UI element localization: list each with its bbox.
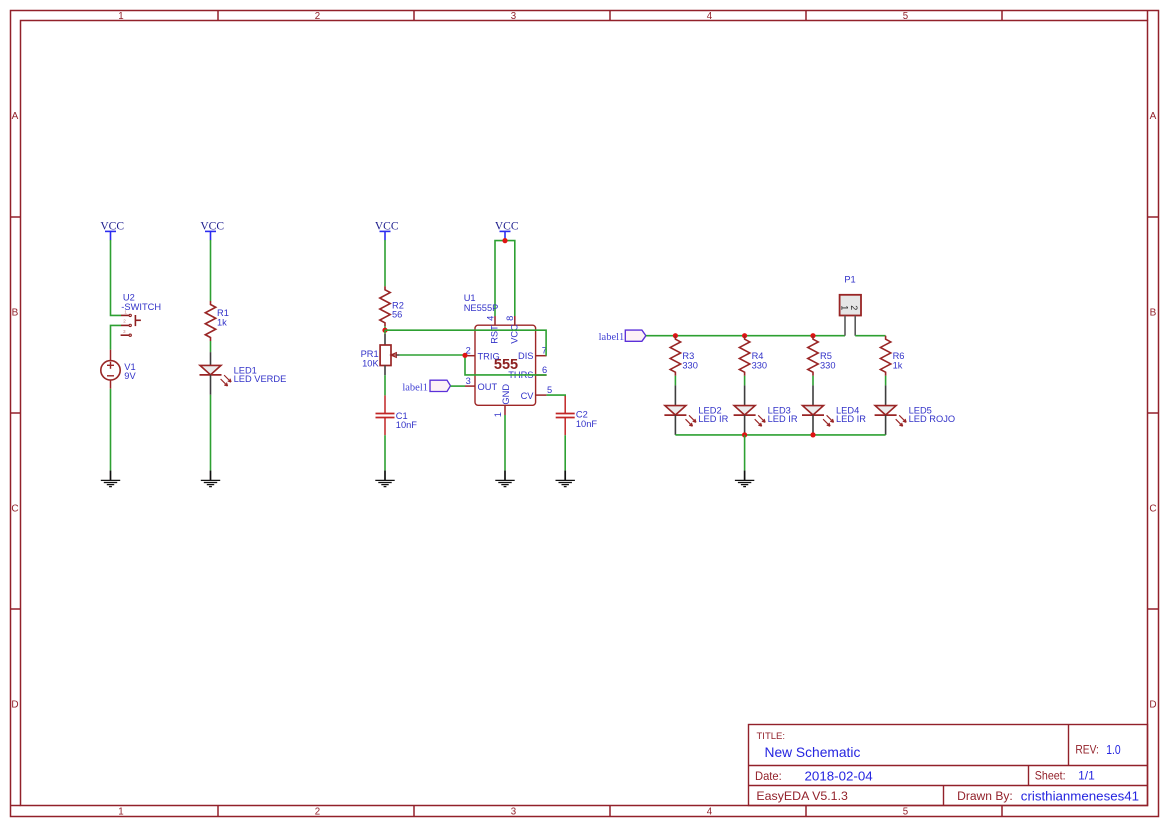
svg-text:2: 2 — [315, 807, 320, 818]
svg-text:1k: 1k — [893, 360, 903, 370]
svg-text:10nF: 10nF — [576, 419, 598, 429]
switch U2 — [121, 292, 161, 336]
svg-text:1.0: 1.0 — [1106, 743, 1120, 757]
svg-text:label1: label1 — [599, 332, 625, 343]
node R5 top — [810, 333, 815, 338]
pin 5 CV — [521, 385, 553, 401]
svg-text:5: 5 — [903, 11, 908, 22]
ground (555 GND) — [495, 471, 514, 487]
wire R2 to node — [384, 326, 386, 330]
svg-text:D: D — [11, 699, 18, 710]
svg-text:2018-02-04: 2018-02-04 — [805, 769, 873, 783]
pin 1 GND — [493, 384, 511, 418]
svg-text:OUT: OUT — [478, 382, 498, 392]
resistor R1 1k — [205, 301, 229, 341]
ground (C1) — [375, 471, 394, 487]
wire C1 to ground — [384, 435, 386, 470]
svg-text:P1: P1 — [844, 275, 855, 285]
wire GND pin to ground — [504, 415, 506, 470]
svg-text:REV:: REV: — [1075, 743, 1099, 757]
pin 4 RST — [485, 316, 499, 344]
node R2/PR1/DIS junction — [382, 328, 387, 333]
wire R5 to LED4 — [812, 376, 814, 386]
LED3 LED IR — [734, 385, 798, 435]
svg-text:TRIG: TRIG — [478, 351, 500, 361]
svg-text:1: 1 — [118, 11, 123, 22]
power flag VCC (U1) — [495, 221, 519, 241]
wire VCC to pins 4 and 8 — [495, 241, 515, 316]
wire node to DIS pin 7 — [385, 330, 546, 356]
svg-text:10K: 10K — [362, 358, 379, 368]
svg-text:5: 5 — [903, 807, 908, 818]
power flag VCC (R2 branch) — [375, 221, 399, 241]
svg-text:VCC: VCC — [510, 324, 520, 344]
svg-text:3: 3 — [511, 11, 516, 22]
resistor R3 330 — [670, 336, 698, 376]
node R3 top — [673, 333, 678, 338]
wire VCC to R1 — [210, 240, 212, 301]
svg-text:RST: RST — [490, 325, 500, 344]
svg-text:LED VERDE: LED VERDE — [234, 374, 287, 384]
svg-text:EasyEDA V5.1.3: EasyEDA V5.1.3 — [756, 790, 848, 803]
svg-text:D: D — [1149, 699, 1156, 710]
svg-text:1: 1 — [493, 412, 503, 417]
wire rail to ground — [744, 435, 746, 471]
svg-text:B: B — [1150, 307, 1157, 318]
node VCC junction — [502, 238, 507, 243]
header P1 — [840, 275, 861, 336]
svg-text:6: 6 — [542, 365, 547, 375]
wire VCC to switch pin 1 — [111, 240, 122, 315]
power flag VCC (V1 branch) — [100, 221, 124, 241]
pin 2 TRIG — [465, 346, 500, 362]
node TRIG junction — [462, 353, 467, 358]
voltage source V1 — [101, 350, 137, 389]
svg-text:Date:: Date: — [755, 769, 782, 783]
svg-text:DIS: DIS — [518, 351, 534, 361]
svg-text:1k: 1k — [217, 318, 227, 328]
LED4 LED IR — [802, 385, 866, 435]
svg-text:3: 3 — [511, 807, 516, 818]
wire node to PR1 — [384, 330, 386, 334]
svg-text:8: 8 — [505, 316, 515, 321]
net flag label1 (OUT) — [402, 380, 450, 393]
svg-text:1: 1 — [118, 807, 123, 818]
wire R4 to LED3 — [744, 376, 746, 386]
wire PR1 to C1 — [384, 375, 386, 395]
svg-text:3: 3 — [466, 376, 471, 386]
svg-text:LED IR: LED IR — [836, 414, 866, 424]
power flag VCC (R1 branch) — [200, 221, 224, 241]
pin 6 THRS — [508, 365, 547, 380]
ground (LED rail) — [735, 471, 754, 487]
wire R6 to LED5 — [885, 376, 887, 386]
svg-text:4: 4 — [485, 316, 495, 321]
svg-text:Drawn By:: Drawn By: — [957, 791, 1013, 803]
TITLE BLOCK — [749, 725, 1148, 806]
ground (C2) — [556, 471, 575, 487]
LED5 LED ROJO — [875, 385, 956, 435]
svg-text:2: 2 — [849, 305, 859, 310]
svg-text:B: B — [12, 307, 19, 318]
pin 3 OUT — [465, 376, 497, 392]
svg-text:4: 4 — [707, 11, 713, 22]
svg-text:2: 2 — [315, 11, 320, 22]
node LED3 bottom — [742, 432, 747, 437]
svg-text:cristhianmeneses41: cristhianmeneses41 — [1021, 789, 1139, 804]
svg-text:TITLE:: TITLE: — [757, 731, 786, 742]
LED1 LED VERDE — [200, 352, 287, 395]
svg-text:GND: GND — [501, 384, 511, 405]
svg-text:U2: U2 — [123, 292, 135, 302]
svg-text:5: 5 — [547, 385, 552, 395]
wire R1 to LED1 — [210, 341, 212, 352]
svg-text:CV: CV — [521, 391, 535, 401]
wire bottom rail — [675, 434, 885, 436]
op-amp U1 NE555P body — [464, 293, 536, 405]
LED2 LED IR — [664, 385, 728, 435]
potentiometer PR1 10K — [361, 334, 400, 375]
wire label1 to P1 pin 1 (top rail) — [646, 335, 845, 337]
svg-text:-SWITCH: -SWITCH — [121, 302, 161, 312]
svg-text:9V: 9V — [124, 371, 136, 381]
pin 7 DIS — [518, 346, 547, 361]
svg-text:New Schematic: New Schematic — [765, 745, 861, 760]
wire V1 to ground — [110, 389, 112, 471]
wire CV pin 5 to C2 — [547, 395, 566, 396]
svg-text:C: C — [1149, 503, 1156, 514]
svg-text:C: C — [11, 503, 18, 514]
resistor R4 330 — [739, 336, 767, 376]
svg-text:1/1: 1/1 — [1078, 769, 1095, 783]
svg-text:A: A — [1150, 111, 1157, 122]
svg-text:NE555P: NE555P — [464, 303, 499, 313]
svg-text:2: 2 — [123, 319, 126, 324]
net flag label1 (LED rail) — [599, 330, 646, 343]
resistor R2 56 — [380, 286, 404, 326]
wire LED1 to ground — [210, 395, 212, 471]
wire TRIG node down to THRS pin 6 — [465, 355, 547, 375]
svg-text:330: 330 — [682, 360, 698, 370]
pin 8 VCC — [505, 316, 519, 344]
svg-text:U1: U1 — [464, 293, 476, 303]
capacitor C1 10nF — [376, 395, 418, 435]
svg-text:1: 1 — [840, 305, 850, 310]
svg-text:10nF: 10nF — [396, 420, 418, 430]
svg-text:3: 3 — [123, 329, 126, 334]
resistor R6 1k — [880, 336, 904, 376]
svg-text:330: 330 — [820, 360, 836, 370]
capacitor C2 10nF — [556, 396, 598, 435]
ground (V1) — [101, 471, 120, 487]
svg-text:330: 330 — [752, 360, 768, 370]
wire VCC to R2 — [384, 240, 386, 286]
resistor R5 330 — [808, 336, 836, 376]
wire P1 pin 2 to R6 — [855, 335, 885, 337]
node R4 top — [742, 333, 747, 338]
wire R3 to LED2 — [674, 376, 676, 386]
svg-text:label1: label1 — [402, 382, 428, 393]
svg-text:Sheet:: Sheet: — [1035, 769, 1066, 783]
wire label1 to OUT pin 3 — [451, 385, 466, 387]
svg-text:LED IR: LED IR — [768, 414, 798, 424]
wire switch pin 2 to V1 — [111, 325, 122, 349]
svg-text:A: A — [12, 111, 19, 122]
wire C2 to ground — [564, 435, 566, 470]
ground (LED1) — [201, 471, 220, 487]
wire PR1 wiper to TRIG — [400, 354, 465, 356]
node LED4 bottom — [810, 432, 815, 437]
svg-text:56: 56 — [392, 310, 402, 320]
svg-text:LED ROJO: LED ROJO — [909, 414, 956, 424]
svg-text:LED IR: LED IR — [698, 414, 728, 424]
svg-text:4: 4 — [707, 807, 713, 818]
